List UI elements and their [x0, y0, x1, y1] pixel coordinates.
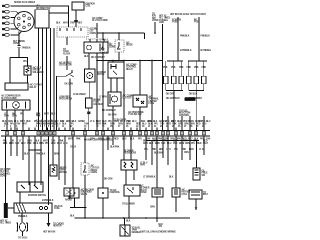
rs labels — [110, 147, 189, 179]
svg-text:BLK: BLK — [84, 56, 89, 58]
tach wire down — [22, 231, 24, 236]
plug wire 5 — [10, 28, 18, 30]
rs wire9 — [196, 141, 198, 169]
coil connector blob — [74, 20, 78, 22]
clutch mid wire — [112, 106, 114, 131]
svg-text:GRN: GRN — [164, 138, 169, 140]
main horiz line y33 — [97, 32, 145, 34]
svg-text:DK B: DK B — [195, 121, 201, 123]
bus right — [189, 90, 204, 92]
rs wire7 — [181, 136, 183, 160]
svg-text:GRN: GRN — [159, 121, 164, 123]
node j3 — [154, 32, 156, 34]
svg-text:PNK/BLK: PNK/BLK — [201, 36, 211, 38]
spark plug 6 — [2, 34, 9, 37]
coil conn wire — [75, 22, 77, 27]
ecm black tag — [185, 97, 196, 101]
svg-text:AT BLOWER: AT BLOWER — [73, 93, 86, 96]
resistor box — [121, 160, 137, 170]
svg-text:DK GRN/WHT: DK GRN/WHT — [102, 110, 116, 112]
left col wire 7 — [40, 136, 42, 185]
rs wire4 — [162, 136, 164, 158]
mid rb box — [172, 188, 180, 197]
strip cavities — [5, 132, 205, 135]
svg-text:TAN: TAN — [70, 22, 75, 25]
svg-text:TAN: TAN — [141, 120, 146, 123]
svg-text:FUSE: FUSE — [149, 103, 155, 105]
fuse wire — [88, 108, 90, 131]
svg-text:LT G: LT G — [63, 143, 68, 145]
svg-text:SOLENOID: SOLENOID — [33, 72, 44, 74]
injector out 5 — [195, 84, 197, 91]
hot at all times col — [159, 15, 171, 25]
svg-text:CONTROL: CONTROL — [179, 115, 190, 117]
svg-text:PNK/BLK: PNK/BLK — [18, 216, 28, 218]
comp wire 2 — [96, 53, 98, 131]
svg-text:ORN: ORN — [170, 138, 175, 140]
svg-text:BLU: BLU — [122, 138, 127, 140]
svg-text:DIODE: DIODE — [126, 45, 133, 47]
svg-text:ORN: ORN — [114, 121, 119, 123]
svg-text:DK BLU: DK BLU — [189, 94, 197, 96]
svg-text:PNK/BLK: PNK/BLK — [36, 154, 46, 156]
strip entry ticks — [11, 128, 197, 131]
right bottom labels — [163, 121, 203, 123]
node j1 — [102, 32, 104, 34]
svg-text:LT G: LT G — [199, 149, 204, 151]
svg-text:IGNITION SWITCH: IGNITION SWITCH — [28, 195, 46, 197]
svg-text:HOT IN RUN: HOT IN RUN — [43, 232, 56, 234]
mid rb wire — [175, 197, 177, 212]
mid box wire — [102, 198, 104, 218]
node j8 — [28, 149, 30, 151]
svg-text:DK GRN: DK GRN — [166, 94, 175, 96]
svg-text:DK: DK — [11, 141, 15, 143]
svg-text:RED: RED — [177, 121, 182, 123]
svg-text:PNK/BLK: PNK/BLK — [180, 36, 190, 38]
inline fuse box — [86, 98, 93, 108]
svg-text:BLK: BLK — [24, 154, 29, 156]
solenoid lower wire — [27, 75, 29, 83]
svg-text:GRN: GRN — [143, 143, 148, 145]
resistor wire 2 — [133, 170, 135, 180]
node bb2 — [102, 217, 104, 219]
est labels above — [56, 22, 83, 25]
blower wire down — [89, 82, 91, 98]
wire to idle solenoid — [10, 58, 28, 67]
wire below diode2 — [118, 52, 120, 61]
radio box — [64, 188, 74, 196]
plug wire 2 — [10, 12, 19, 14]
svg-text:GRN: GRN — [4, 116, 9, 118]
set timing wire lower — [18, 48, 20, 58]
svg-text:TAN: TAN — [60, 120, 65, 123]
svg-text:MOTOR: MOTOR — [97, 74, 105, 76]
T bar 2 — [188, 60, 207, 62]
svg-text:BRN: BRN — [106, 138, 111, 140]
svg-text:LT GRN/BLK: LT GRN/BLK — [143, 177, 156, 179]
horiz line y60 — [97, 60, 163, 62]
left col wire 1 — [5, 136, 7, 193]
node j97 — [96, 60, 98, 62]
node bb4 — [128, 217, 130, 219]
y33 end drop — [144, 33, 146, 39]
below strip label row — [3, 140, 208, 143]
svg-text:B PNK/BLK: B PNK/BLK — [42, 200, 54, 202]
svg-text:BLU: BLU — [132, 121, 137, 123]
left col wire 5 — [28, 136, 30, 185]
pressure switch — [57, 70, 73, 131]
svg-text:PNK: PNK — [126, 121, 131, 123]
temp switch box — [50, 165, 57, 176]
ref wire lower — [66, 56, 68, 70]
injector drop 3 — [180, 61, 182, 76]
svg-text:RED: RED — [197, 143, 202, 145]
relay out — [156, 197, 158, 218]
svg-text:WHT: WHT — [96, 121, 102, 123]
svg-text:REF: REF — [78, 23, 83, 25]
svg-text:GRN: GRN — [78, 121, 83, 123]
svg-text:BLK: BLK — [56, 23, 61, 25]
spark plug 3 — [2, 16, 9, 19]
ecm fuse wire A — [177, 17, 179, 61]
svg-text:BLK: BLK — [72, 121, 77, 123]
svg-text:ORN: ORN — [39, 143, 44, 145]
below bus drop — [156, 218, 158, 222]
svg-text:LT G: LT G — [90, 121, 95, 123]
svg-text:BLK: BLK — [35, 141, 40, 143]
svg-text:CONN: CONN — [140, 192, 147, 194]
clutch wire 2 — [14, 110, 16, 131]
svg-text:BLK: BLK — [169, 177, 174, 179]
svg-text:CONN: CONN — [152, 20, 159, 22]
a/c idle solenoid box — [24, 66, 31, 75]
injector out 3 — [180, 84, 182, 91]
node j4 — [112, 60, 114, 62]
wire labels row A — [4, 114, 56, 123]
wire below diode1 — [102, 52, 104, 131]
above strip tick labels — [4, 123, 207, 128]
svg-text:ALL TIMES: ALL TIMES — [0, 222, 12, 225]
svg-text:ORN: ORN — [98, 138, 103, 140]
drop to strip F — [203, 116, 205, 131]
ign sw wire — [154, 22, 156, 33]
svg-text:DK GRN: DK GRN — [108, 115, 117, 117]
rs wire6 — [175, 136, 177, 188]
svg-text:DK GRN/WHT: DK GRN/WHT — [166, 98, 180, 100]
mid wire x73 — [72, 136, 74, 188]
HEI distributor box — [35, 10, 49, 28]
svg-text:SWITCH: SWITCH — [59, 172, 68, 174]
coil secondary wire — [10, 6, 68, 27]
dashed conn row — [86, 38, 108, 40]
inj fuse wire B — [198, 17, 200, 61]
svg-text:BLU: BLU — [206, 121, 211, 123]
dk grn labels — [166, 94, 203, 101]
brake sw box — [70, 188, 79, 198]
dist harness wire 3 — [46, 28, 48, 131]
injector 3 — [179, 76, 183, 84]
node j5 — [123, 60, 125, 62]
diode box 1 — [100, 40, 108, 52]
svg-text:TAN: TAN — [206, 137, 211, 140]
svg-text:ORN: ORN — [184, 152, 189, 154]
svg-text:LT G: LT G — [165, 121, 170, 123]
spark plug 1 — [2, 5, 9, 8]
svg-text:DK B: DK B — [120, 121, 126, 123]
svg-text:BRN: BRN — [147, 121, 152, 123]
above-strip labels — [60, 120, 152, 124]
svg-text:B PNK/BLK: B PNK/BLK — [201, 50, 212, 52]
rs wire1 — [145, 136, 147, 160]
ac conn wire top — [96, 23, 98, 38]
svg-text:RED: RED — [114, 138, 119, 140]
long bottom bus — [75, 217, 191, 219]
thermal wire down — [139, 107, 141, 131]
svg-text:VACUUM SW: VACUUM SW — [59, 98, 73, 101]
mid wire x108 — [107, 136, 109, 150]
node j9 — [34, 149, 36, 151]
node j10 — [40, 149, 42, 151]
injector 2 — [172, 76, 176, 84]
left col wire 2 — [10, 136, 12, 156]
svg-text:WHT: WHT — [44, 114, 50, 116]
right rb wire — [195, 199, 197, 210]
drop to strip D — [189, 116, 191, 131]
svg-text:CTRL: CTRL — [182, 194, 188, 196]
svg-text:TAN/BLK: TAN/BLK — [22, 46, 31, 49]
diode conn 2 wire — [118, 33, 120, 40]
svg-text:CUTOUT SW: CUTOUT SW — [59, 65, 73, 67]
svg-text:COIL: COIL — [86, 6, 92, 8]
rs wire10 — [203, 136, 205, 155]
pass wire x152 — [151, 61, 153, 131]
relay br wire — [128, 196, 130, 218]
svg-text:LT G: LT G — [167, 149, 172, 151]
svg-text:PNK: PNK — [36, 116, 41, 118]
svg-text:HOLDER: HOLDER — [94, 104, 103, 106]
to ign text col — [152, 14, 159, 23]
svg-text:CONN: CONN — [0, 176, 7, 178]
brake wire down — [74, 198, 76, 208]
svg-text:BLK/WHT: BLK/WHT — [154, 153, 164, 155]
svg-text:PNK: PNK — [158, 138, 163, 140]
svg-text:BLK: BLK — [153, 121, 158, 123]
clutch wire 1 — [6, 110, 8, 131]
injector 6 — [202, 76, 206, 84]
svg-text:HOT IN RUN, BULB TEST OR START: HOT IN RUN, BULB TEST OR START — [170, 13, 207, 16]
injector 4 — [187, 76, 191, 84]
svg-text:DK B: DK B — [33, 143, 39, 145]
fuse panel box — [14, 203, 52, 213]
svg-text:DK GRN: DK GRN — [65, 84, 74, 86]
mid wire x131 — [130, 136, 132, 160]
pass wire x124 — [123, 61, 125, 131]
drop to strip C — [181, 116, 183, 131]
injector out 2 — [173, 84, 175, 91]
svg-text:PNK: PNK — [59, 141, 64, 143]
dist harness wire 4 — [50, 28, 52, 131]
mid wire x85 — [84, 136, 86, 163]
svg-text:BLK: BLK — [149, 143, 154, 145]
svg-text:FUSE: FUSE — [54, 208, 60, 210]
choke wire — [48, 213, 50, 222]
rs wire8 — [189, 136, 191, 160]
svg-text:RADIO: RADIO — [65, 199, 72, 202]
svg-text:RED: RED — [182, 138, 187, 140]
a/c compressor clutch box — [2, 100, 30, 110]
node j7 — [151, 60, 153, 62]
svg-text:GRN: GRN — [90, 138, 95, 140]
svg-text:RED: RED — [51, 143, 56, 145]
bulkhead strip — [1, 131, 210, 137]
svg-text:BLK: BLK — [194, 138, 199, 140]
left long wire — [162, 24, 164, 131]
node bb6 — [156, 217, 158, 219]
svg-text:CONN: CONN — [91, 172, 98, 174]
svg-text:CYCLING SW: CYCLING SW — [128, 114, 142, 116]
svg-text:LINK: LINK — [159, 22, 164, 24]
svg-text:WHT: WHT — [63, 23, 69, 25]
oil pres component — [193, 168, 200, 180]
bar to fusebox wire — [8, 207, 14, 209]
left col wire 3 — [16, 136, 18, 156]
set timing wire upper — [18, 32, 20, 46]
bus left — [166, 90, 183, 92]
wire to fusebar — [5, 193, 7, 203]
left col wire 12 — [64, 136, 66, 185]
coil primary wire — [75, 10, 77, 20]
set timing connector — [18, 45, 21, 47]
svg-text:ORN: ORN — [185, 143, 190, 145]
node bb3 — [123, 217, 125, 219]
svg-text:CLUTCH CONN: CLUTCH CONN — [1, 98, 17, 100]
svg-text:RESISTORS: RESISTORS — [124, 153, 137, 155]
svg-text:PNK: PNK — [173, 143, 178, 145]
svg-text:BLU: BLU — [54, 121, 59, 123]
cutout relay box — [5, 83, 28, 90]
svg-text:VALVE: VALVE — [81, 193, 88, 196]
bus drop right — [195, 91, 197, 121]
node j6 — [139, 60, 141, 62]
below strip tick labels — [68, 137, 211, 140]
injector out 6 — [203, 84, 205, 91]
injector out 1 — [165, 84, 167, 91]
injector drop 2 — [173, 61, 175, 76]
rb arrow — [195, 207, 198, 210]
ignition switch box — [17, 182, 43, 192]
compressor box — [84, 42, 108, 53]
svg-text:CONTROL: CONTROL — [110, 192, 121, 194]
drop to strip A — [167, 116, 169, 131]
injector out 4 — [188, 84, 190, 91]
tach filter component — [17, 223, 28, 232]
svg-text:SPARK PLUG WIRES: SPARK PLUG WIRES — [14, 1, 36, 4]
svg-text:GRN: GRN — [27, 141, 32, 143]
est connector dashed box — [57, 27, 88, 37]
svg-text:INST: INST — [203, 194, 208, 196]
svg-text:RELAY: RELAY — [30, 86, 38, 89]
spark plug 5 — [2, 28, 9, 31]
conn ticks — [90, 39, 104, 42]
gnd drop wire — [124, 218, 126, 225]
vac box — [68, 187, 70, 189]
dist harness wire 2 — [42, 28, 44, 131]
injector 5 — [194, 76, 198, 84]
svg-text:14 GA: 14 GA — [70, 146, 76, 149]
svg-text:ORN: ORN — [140, 165, 145, 167]
drop to strip B — [173, 120, 175, 131]
left branch wire — [9, 58, 11, 84]
ignition coil box — [72, 2, 84, 10]
tach filter wire — [21, 213, 23, 222]
comp wire down — [88, 53, 90, 69]
bus drop left — [173, 91, 175, 121]
resistor wire 1 — [125, 170, 127, 185]
svg-text:ORN: ORN — [150, 207, 155, 209]
node bb1 — [84, 217, 86, 219]
rs wire5 — [167, 136, 169, 165]
mid wire x124 — [123, 136, 125, 160]
svg-text:RELAY: RELAY — [126, 68, 134, 71]
svg-text:WHT: WHT — [171, 121, 177, 123]
dist harness wire 5 — [53, 28, 55, 131]
mid wire x115 — [112, 136, 114, 145]
injector drop 5 — [195, 61, 197, 76]
switch tick — [71, 75, 74, 77]
mid wire x103 — [102, 136, 104, 188]
plug wire 6 — [10, 31, 21, 35]
relay out wire 1 — [110, 78, 112, 92]
switch branch wire — [69, 79, 71, 131]
diode mid box — [81, 163, 89, 175]
svg-text:FUSE: FUSE — [172, 22, 178, 24]
svg-text:BLK: BLK — [126, 221, 131, 223]
wire dist to coil conn — [49, 12, 69, 14]
svg-text:WHT: WHT — [43, 141, 49, 143]
mid box 103 — [98, 188, 108, 198]
rs wire2 — [151, 141, 153, 166]
svg-text:GRN: GRN — [12, 116, 17, 118]
svg-text:FILTER: FILTER — [63, 53, 71, 55]
blower motor box — [85, 69, 96, 82]
svg-text:PNK: PNK — [27, 143, 32, 145]
svg-text:BLK: BLK — [2, 121, 7, 123]
svg-text:BLU: BLU — [188, 138, 193, 140]
svg-text:FUSE: FUSE — [194, 22, 200, 24]
diode conn 1 wire — [102, 33, 104, 40]
svg-text:ORN: ORN — [189, 121, 194, 123]
a/c control relay box — [108, 62, 124, 78]
left col wire 8 — [48, 136, 50, 205]
plug wire 4 — [10, 22, 14, 24]
svg-text:BRN: BRN — [155, 143, 160, 145]
svg-text:CLUTCH CONN: CLUTCH CONN — [92, 20, 108, 22]
left col wire 11 — [58, 136, 60, 180]
left col wire 10 — [52, 136, 54, 165]
mid labels — [24, 154, 59, 156]
injector drop 6 — [203, 61, 205, 76]
injector wire labels — [163, 67, 206, 69]
svg-text:LT G: LT G — [14, 121, 19, 123]
svg-text:BRN: BRN — [176, 138, 181, 140]
right sub bus — [146, 140, 199, 142]
clutch wire 3 — [22, 110, 24, 131]
svg-text:DK GRN: DK GRN — [104, 179, 113, 181]
svg-text:RED: RED — [102, 121, 107, 123]
left text block — [0, 168, 11, 178]
ref wire — [66, 37, 68, 45]
